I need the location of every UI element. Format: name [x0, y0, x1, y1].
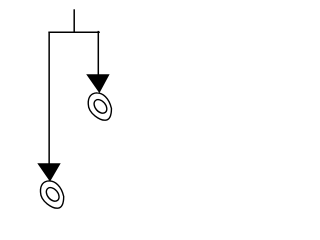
arrowhead right: [86, 74, 109, 93]
arrowhead left: [37, 163, 60, 181]
wire: horizontal bar: [48, 31, 99, 33]
ring left: [40, 181, 63, 208]
wire: top stub: [73, 9, 75, 32]
ring right: [88, 93, 111, 120]
wire: left drop: [48, 32, 50, 164]
wire: right drop: [97, 31, 99, 75]
